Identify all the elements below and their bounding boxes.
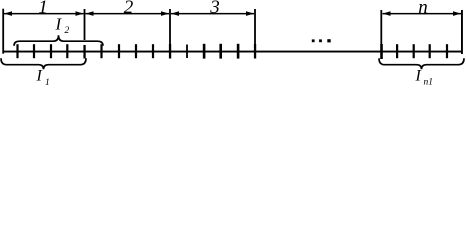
number line <box>3 51 463 53</box>
svg-text:3: 3 <box>209 0 220 18</box>
svg-text:2: 2 <box>65 26 70 36</box>
svg-text:1: 1 <box>45 78 50 86</box>
lower brace In1 <box>379 58 464 69</box>
ticks interval 3 <box>186 44 239 59</box>
boundary bar x=381.5 <box>380 10 382 44</box>
boundary bar x=170 <box>169 9 171 44</box>
dimension arrow segment 2 <box>86 11 170 16</box>
svg-text:I: I <box>36 68 43 85</box>
ticks interval n <box>396 44 448 58</box>
boundary bar x=3 <box>2 9 4 54</box>
svg-text:I: I <box>415 68 422 85</box>
boundary bar x=255 <box>254 9 256 44</box>
svg-text:n1: n1 <box>424 77 434 86</box>
ticks interval 1 <box>16 44 68 58</box>
ellipsis dots <box>312 39 331 42</box>
svg-text:1: 1 <box>38 0 48 18</box>
upper brace (I2) <box>14 35 103 46</box>
lower brace I1 <box>1 58 86 69</box>
dimension arrow segment n <box>383 11 462 16</box>
ticks interval 2 <box>100 44 154 58</box>
boundary bar x=84.5 <box>84 9 86 40</box>
dimension arrow segment 3 <box>171 11 254 16</box>
svg-text:n: n <box>418 0 428 18</box>
dimension arrow segment 1 <box>4 11 84 16</box>
boundary bar x=462 <box>461 10 463 54</box>
svg-text:2: 2 <box>124 0 134 18</box>
